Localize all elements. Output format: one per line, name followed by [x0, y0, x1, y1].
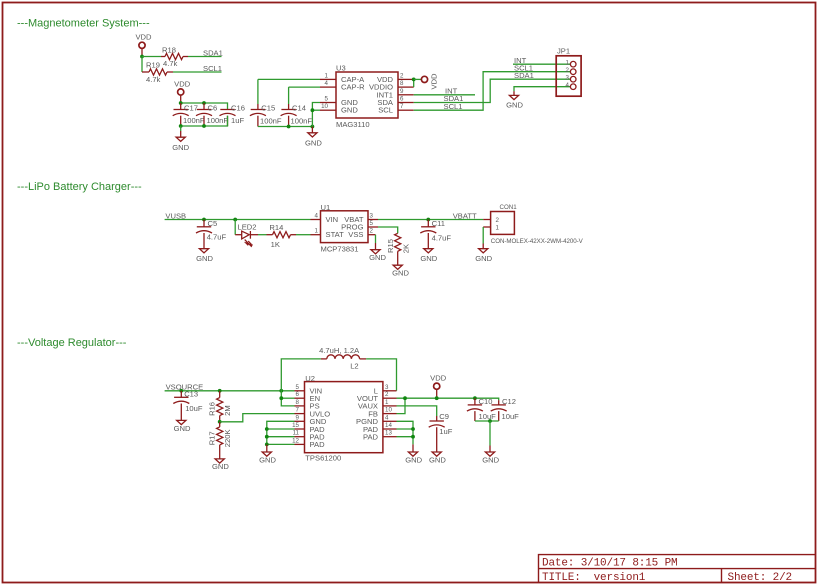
- svg-text:STAT: STAT: [326, 230, 345, 239]
- wire top cap rail: [181, 103, 228, 110]
- JP1 pin 1: [570, 61, 576, 67]
- svg-text:6: 6: [400, 96, 404, 103]
- svg-text:PAD: PAD: [310, 440, 326, 449]
- svg-text:2K: 2K: [402, 244, 411, 253]
- svg-text:GND: GND: [341, 106, 358, 115]
- junction gnd rail: [311, 125, 315, 129]
- ground U1 VSS: [371, 250, 380, 254]
- ground U2 pads: [266, 444, 268, 452]
- svg-text:C6: C6: [208, 103, 218, 112]
- svg-text:3: 3: [385, 384, 389, 391]
- wire pin2 to VDD symbol: [414, 78, 422, 80]
- JP1 pin 3: [570, 76, 576, 82]
- svg-text:7: 7: [296, 407, 300, 414]
- capacitor C15: [257, 79, 259, 104]
- ground magnetometer: [311, 127, 313, 133]
- svg-text:MCP73831: MCP73831: [321, 245, 359, 254]
- U3 pin 5: [320, 102, 336, 104]
- wire junction down to SCL1 row: [141, 57, 143, 73]
- ground C13: [177, 420, 186, 424]
- svg-text:GND: GND: [259, 455, 276, 464]
- junction output gnd: [488, 419, 492, 423]
- svg-text:10uF: 10uF: [479, 412, 497, 421]
- svg-text:TITLE: version1: TITLE: version1: [542, 572, 646, 584]
- wire JP1 pin4 to ground: [514, 87, 570, 92]
- JP1 pin 4: [570, 84, 576, 90]
- U3 pin 10: [320, 109, 336, 111]
- svg-text:C14: C14: [292, 103, 306, 112]
- svg-text:---Magnetometer System---: ---Magnetometer System---: [17, 18, 150, 30]
- op-amp U3 MAG3110 body: [336, 72, 398, 118]
- junction EN: [279, 396, 283, 400]
- svg-text:C15: C15: [261, 103, 275, 112]
- svg-text:GND: GND: [172, 143, 189, 152]
- svg-text:100nF: 100nF: [183, 116, 205, 125]
- svg-text:L2: L2: [350, 362, 358, 371]
- wire SCL1 net stub: [173, 71, 222, 73]
- svg-text:GND: GND: [482, 455, 499, 464]
- svg-text:15: 15: [292, 422, 299, 429]
- svg-text:TPS61200: TPS61200: [305, 454, 341, 463]
- ground right pads: [412, 444, 414, 452]
- wire VOUT rail: [397, 398, 499, 400]
- junction C13: [179, 389, 183, 393]
- U1 pin 3: [368, 219, 378, 221]
- svg-text:2: 2: [385, 391, 389, 398]
- op-amp U1 MCP73831 body: [321, 211, 369, 243]
- junction R16: [218, 389, 222, 393]
- junction C11: [426, 218, 430, 222]
- svg-text:3: 3: [370, 213, 374, 220]
- junction VDD pin2: [412, 78, 416, 82]
- svg-text:1uF: 1uF: [439, 427, 452, 436]
- wire bottom cap rail: [181, 116, 228, 126]
- svg-text:4: 4: [385, 414, 389, 421]
- svg-text:7: 7: [400, 103, 404, 110]
- wire cap ground rail: [258, 126, 313, 128]
- op-amp U2 TPS61200 body: [305, 382, 383, 453]
- svg-text:100nF: 100nF: [207, 116, 229, 125]
- ground C5: [199, 249, 208, 253]
- svg-text:GND: GND: [305, 138, 322, 147]
- svg-text:2: 2: [370, 228, 374, 235]
- svg-text:VDD: VDD: [430, 374, 447, 383]
- svg-text:1: 1: [315, 228, 319, 235]
- svg-text:SDA1: SDA1: [514, 71, 534, 80]
- svg-text:4.7k: 4.7k: [146, 75, 161, 84]
- svg-text:1: 1: [566, 59, 570, 66]
- connector JP1: [556, 56, 581, 96]
- svg-text:12: 12: [292, 437, 299, 444]
- svg-text:1K: 1K: [271, 240, 280, 249]
- wire C15 to pin CAP-A: [258, 78, 320, 80]
- resistor R16: [219, 391, 221, 398]
- junction GND pin 10: [311, 108, 315, 112]
- supply VDD at U3: [421, 76, 427, 82]
- ground output caps: [485, 452, 494, 456]
- svg-text:R18: R18: [162, 45, 176, 54]
- capacitor C16: [220, 109, 234, 111]
- svg-text:C17: C17: [184, 103, 198, 112]
- resistor R18: [161, 56, 165, 58]
- wire VSS to ground: [375, 235, 377, 243]
- wire LED2 to R14: [258, 234, 267, 236]
- supply VDD output: [434, 383, 440, 389]
- svg-text:CON-MOLEX-42XX-2WM-4200-V: CON-MOLEX-42XX-2WM-4200-V: [491, 238, 584, 245]
- U2 left pins: [295, 390, 305, 392]
- capacitor C5: [203, 220, 205, 227]
- wire divider to UVLO: [220, 414, 295, 422]
- svg-text:2: 2: [496, 217, 500, 224]
- capacitor C13: [180, 391, 182, 398]
- wire INT from U3: [414, 94, 475, 96]
- svg-text:LED2: LED2: [238, 223, 257, 232]
- svg-text:2M: 2M: [223, 405, 232, 416]
- svg-text:CAP-R: CAP-R: [341, 83, 365, 92]
- supply VDD (pull-ups): [139, 42, 145, 48]
- svg-text:8: 8: [296, 399, 300, 406]
- capacitor C17: [180, 103, 182, 110]
- wire EN/PS tie: [281, 391, 294, 406]
- wire R14 to STAT: [296, 234, 311, 236]
- svg-text:C13: C13: [184, 390, 198, 399]
- svg-text:4: 4: [315, 213, 319, 220]
- capacitor C6: [203, 103, 205, 110]
- svg-text:5: 5: [325, 96, 329, 103]
- wire C14 to pin CAP-R: [289, 86, 320, 88]
- U3 pin 8: [398, 86, 414, 88]
- svg-text:U2: U2: [305, 374, 315, 383]
- ground R17: [215, 459, 224, 463]
- svg-text:1: 1: [385, 399, 389, 406]
- svg-text:Sheet: 2/2: Sheet: 2/2: [728, 572, 793, 584]
- resistor R14: [267, 234, 273, 236]
- ground JP1: [509, 95, 518, 99]
- svg-text:VDD: VDD: [174, 79, 191, 88]
- U3 pin 6: [398, 102, 414, 104]
- svg-text:10uF: 10uF: [185, 404, 203, 413]
- svg-text:2: 2: [400, 72, 404, 79]
- junction PAD13: [411, 435, 415, 439]
- wire VDD to junction: [141, 48, 143, 56]
- svg-text:SDA1: SDA1: [203, 48, 223, 57]
- U3 pin 7: [398, 109, 414, 111]
- svg-text:R16: R16: [208, 402, 217, 416]
- svg-text:MAG3110: MAG3110: [336, 120, 370, 129]
- svg-text:4.7uH, 1.2A: 4.7uH, 1.2A: [319, 346, 360, 355]
- resistor R19: [142, 71, 149, 73]
- svg-text:VBATT: VBATT: [453, 211, 477, 220]
- svg-text:SCL: SCL: [378, 106, 393, 115]
- capacitor C14: [288, 87, 290, 104]
- supply VDD (decoupling caps): [178, 89, 184, 95]
- svg-text:GND: GND: [405, 455, 422, 464]
- junction PAD12: [265, 443, 269, 447]
- svg-text:JP1: JP1: [557, 47, 570, 56]
- ground below C17: [180, 126, 182, 131]
- capacitor C12: [498, 400, 500, 405]
- U1 pin 1: [311, 234, 321, 236]
- wire VDDIO tie to VDD: [413, 79, 415, 87]
- svg-text:---LiPo Battery Charger---: ---LiPo Battery Charger---: [17, 181, 142, 193]
- wire SDA1 pull-up left: [142, 56, 161, 58]
- svg-text:R14: R14: [269, 223, 283, 232]
- svg-text:R17: R17: [208, 431, 217, 445]
- wire to output ground: [489, 421, 491, 446]
- junction C6 bottom: [202, 124, 206, 128]
- junction FB/VOUT: [403, 396, 407, 400]
- svg-text:4.7k: 4.7k: [163, 59, 178, 68]
- U1 pin 5: [368, 226, 378, 228]
- inductor L2: [281, 359, 321, 391]
- svg-text:11: 11: [293, 430, 300, 437]
- junction VDD: [435, 396, 439, 400]
- wire SDA1 net stub: [188, 56, 222, 58]
- junction pull-up node: [140, 55, 144, 59]
- svg-text:SCL1: SCL1: [444, 102, 463, 111]
- junction L2/EN: [279, 389, 283, 393]
- junction PAD11: [265, 435, 269, 439]
- svg-text:4.7uF: 4.7uF: [207, 233, 227, 242]
- svg-text:10: 10: [385, 407, 392, 414]
- svg-text:3: 3: [566, 74, 570, 81]
- svg-text:C9: C9: [439, 412, 449, 421]
- U2 right pins: [383, 390, 397, 392]
- wire PROG to R15: [378, 227, 398, 233]
- svg-text:9: 9: [296, 414, 300, 421]
- svg-text:GND: GND: [429, 455, 446, 464]
- CON1 pin 1: [483, 226, 490, 228]
- svg-text:100nF: 100nF: [260, 117, 282, 126]
- wire VSOURCE to U2 VIN: [165, 390, 295, 392]
- svg-text:GND: GND: [506, 100, 523, 109]
- svg-text:C11: C11: [432, 219, 445, 228]
- wire CON1 pin1 to ground: [482, 227, 484, 244]
- svg-text:C10: C10: [479, 397, 493, 406]
- svg-text:VSS: VSS: [348, 230, 363, 239]
- title block frame: [539, 555, 816, 583]
- svg-text:GND: GND: [420, 254, 437, 263]
- svg-text:CON1: CON1: [500, 204, 518, 211]
- U3 pin 1: [320, 78, 336, 80]
- svg-text:1: 1: [496, 225, 500, 232]
- svg-text:VDD: VDD: [430, 73, 439, 90]
- ground C11: [424, 249, 433, 253]
- connector CON1 body: [491, 212, 515, 235]
- wire PGND to pads rail: [397, 421, 414, 444]
- wire C10/C12 bottom rail: [475, 420, 499, 422]
- svg-text:R15: R15: [386, 239, 395, 253]
- svg-text:100nF: 100nF: [291, 117, 313, 126]
- svg-text:1: 1: [325, 72, 329, 79]
- svg-text:4: 4: [566, 82, 570, 89]
- svg-text:GND: GND: [475, 254, 492, 263]
- svg-text:GND: GND: [212, 462, 229, 471]
- svg-text:GND: GND: [174, 424, 191, 433]
- svg-text:U1: U1: [321, 203, 331, 212]
- resistor R17: [219, 422, 221, 427]
- svg-text:10: 10: [321, 103, 328, 110]
- svg-text:14: 14: [385, 422, 392, 429]
- junction C17 top: [179, 101, 183, 105]
- svg-text:5: 5: [370, 220, 374, 227]
- capacitor C11: [427, 220, 429, 227]
- svg-text:1uF: 1uF: [231, 116, 244, 125]
- svg-text:VDD: VDD: [135, 33, 152, 42]
- svg-text:6: 6: [296, 391, 300, 398]
- svg-text:C5: C5: [208, 219, 218, 228]
- wire INT to JP1: [513, 63, 570, 65]
- wire GND/PAD rail: [267, 421, 295, 444]
- wire VAUX to C9: [397, 406, 437, 416]
- svg-text:5: 5: [296, 384, 300, 391]
- CON1 pin 2: [483, 219, 490, 221]
- U1 pin 4: [311, 219, 321, 221]
- svg-text:13: 13: [385, 430, 392, 437]
- svg-text:PAD: PAD: [363, 433, 379, 442]
- wire VUSB to U1 VIN: [165, 219, 311, 221]
- U1 pin 2: [368, 234, 376, 236]
- svg-text:10uF: 10uF: [502, 412, 520, 421]
- ground R15: [393, 265, 402, 269]
- capacitor C9: [436, 416, 438, 421]
- junction PAD15: [265, 427, 269, 431]
- junction C17 bottom: [179, 124, 183, 128]
- svg-text:R19: R19: [146, 61, 160, 70]
- ground C9: [432, 452, 441, 456]
- junction C5: [202, 218, 206, 222]
- svg-text:8: 8: [400, 80, 404, 87]
- junction C10: [473, 396, 477, 400]
- svg-text:GND: GND: [369, 253, 386, 262]
- svg-text:---Voltage Regulator---: ---Voltage Regulator---: [17, 337, 127, 349]
- U3 pin 2: [398, 78, 414, 80]
- U3 pin 4: [320, 86, 336, 88]
- wire VDD to cap rail: [180, 95, 182, 103]
- U3 pin 9: [398, 94, 414, 96]
- wire SCL1 from U3 to JP1: [414, 72, 571, 111]
- capacitor C10: [474, 398, 476, 405]
- junction R16/R17: [218, 420, 222, 424]
- junction LED2: [233, 218, 237, 222]
- junction PAD14: [411, 427, 415, 431]
- resistor R15: [395, 233, 401, 251]
- svg-text:SCL1: SCL1: [203, 64, 222, 73]
- svg-text:VIN: VIN: [326, 215, 339, 224]
- svg-text:4.7uF: 4.7uF: [432, 233, 452, 242]
- junction C6 top: [202, 101, 206, 105]
- ground CON1: [479, 249, 488, 253]
- LED LED2: [234, 220, 236, 235]
- wire gnd rail up to GND pins: [312, 103, 320, 127]
- wire VBAT to CON1: [378, 219, 483, 221]
- JP1 pin 2: [570, 69, 576, 75]
- svg-text:GND: GND: [392, 269, 409, 278]
- junction C14 bottom: [287, 125, 291, 129]
- svg-text:C16: C16: [231, 103, 245, 112]
- svg-text:Date: 3/10/17 8:15 PM: Date: 3/10/17 8:15 PM: [542, 557, 677, 569]
- wire FB tie: [397, 398, 406, 413]
- svg-text:U3: U3: [336, 63, 346, 72]
- svg-text:220K: 220K: [223, 429, 232, 447]
- svg-text:GND: GND: [196, 254, 213, 263]
- svg-text:4: 4: [325, 80, 329, 87]
- svg-text:2: 2: [566, 67, 570, 74]
- wire SDA1 from U3 to JP1: [414, 79, 571, 102]
- svg-text:9: 9: [400, 88, 404, 95]
- svg-text:C12: C12: [502, 397, 516, 406]
